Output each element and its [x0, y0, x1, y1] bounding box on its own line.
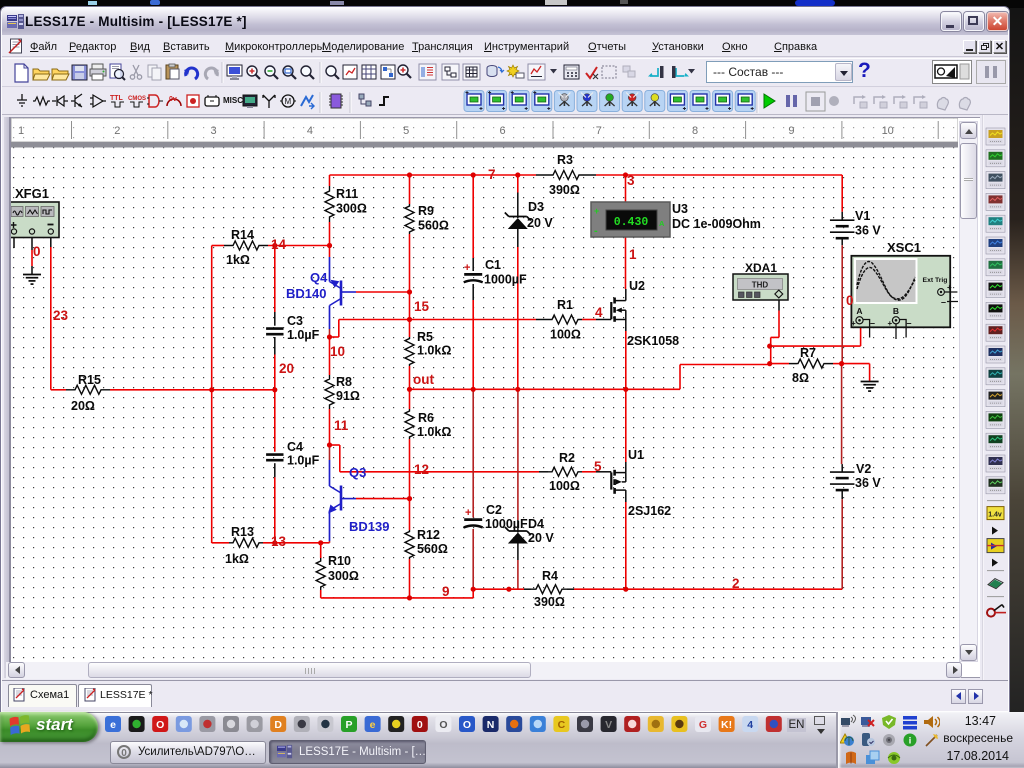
svg-text:11: 11 [334, 418, 349, 433]
svg-text:R14: R14 [231, 228, 254, 242]
svg-text:1000µF: 1000µF [484, 273, 527, 287]
svg-text:23: 23 [53, 308, 69, 323]
svg-text:Q3: Q3 [349, 465, 366, 480]
svg-text:U1: U1 [628, 448, 644, 462]
svg-text:e: e [370, 719, 376, 731]
svg-text:DC 1e-009Ohm: DC 1e-009Ohm [672, 217, 761, 231]
svg-text:TTL: TTL [110, 95, 124, 102]
svg-text:1.0kΩ: 1.0kΩ [417, 344, 451, 358]
svg-text:R7: R7 [800, 346, 816, 360]
svg-text:+: + [851, 319, 856, 328]
svg-text:BD139: BD139 [349, 519, 389, 534]
svg-text:560Ω: 560Ω [418, 219, 449, 233]
svg-text:2: 2 [732, 576, 740, 591]
svg-text:–: – [941, 297, 946, 307]
svg-text:0v: 0v [169, 96, 177, 103]
svg-text:0: 0 [846, 293, 854, 308]
svg-text:390Ω: 390Ω [549, 183, 580, 197]
svg-text:+: + [888, 319, 893, 328]
svg-text:V: V [605, 719, 612, 731]
svg-text:1: 1 [18, 125, 24, 137]
svg-text:20Ω: 20Ω [71, 399, 95, 413]
svg-text:V1: V1 [855, 209, 870, 223]
svg-text:R15: R15 [78, 373, 101, 387]
svg-text:B: B [893, 306, 899, 316]
svg-text:0: 0 [417, 719, 423, 731]
svg-text:+: + [464, 262, 470, 274]
svg-text:4: 4 [747, 719, 753, 731]
svg-text:2SK1058: 2SK1058 [627, 334, 679, 348]
svg-text:O: O [463, 719, 471, 731]
svg-text:4: 4 [307, 125, 313, 137]
svg-text:U3: U3 [672, 202, 688, 216]
svg-text:R13: R13 [231, 525, 254, 539]
svg-text:20 V: 20 V [528, 531, 554, 545]
svg-text:+: + [594, 206, 599, 216]
svg-text:R2: R2 [559, 451, 575, 465]
svg-text:D4: D4 [528, 517, 544, 531]
svg-text:N: N [487, 719, 495, 731]
svg-text:XSC1: XSC1 [887, 240, 921, 255]
svg-text:0: 0 [33, 244, 41, 259]
svg-text:1.0µF: 1.0µF [287, 454, 320, 468]
svg-text:0.430: 0.430 [614, 216, 649, 229]
svg-text:1.0kΩ: 1.0kΩ [417, 425, 451, 439]
svg-text:20: 20 [279, 361, 294, 376]
svg-text:10: 10 [330, 344, 345, 359]
svg-text:R8: R8 [336, 375, 352, 389]
svg-text:–: – [907, 318, 912, 328]
svg-text:Ext Trig: Ext Trig [923, 277, 948, 284]
svg-text:XDA1: XDA1 [745, 261, 777, 275]
svg-text:R6: R6 [418, 411, 434, 425]
svg-text:10: 10 [882, 125, 894, 137]
svg-text:100Ω: 100Ω [549, 479, 580, 493]
svg-text:4: 4 [595, 305, 603, 320]
svg-text:36 V: 36 V [855, 224, 881, 238]
svg-text:-: - [594, 225, 598, 237]
svg-text:A: A [659, 219, 665, 228]
svg-text:CMOS: CMOS [128, 96, 146, 102]
svg-text:1.0µF: 1.0µF [287, 328, 320, 342]
svg-text:300Ω: 300Ω [336, 202, 367, 216]
svg-text:+: + [465, 507, 471, 519]
svg-text:91Ω: 91Ω [336, 389, 360, 403]
svg-text:i: i [909, 736, 912, 746]
svg-text:R11: R11 [336, 187, 358, 201]
svg-text:C: C [558, 719, 566, 731]
svg-text:3: 3 [211, 125, 217, 137]
svg-text:15: 15 [414, 299, 430, 314]
svg-text:R10: R10 [328, 554, 351, 568]
svg-text:+: + [947, 283, 952, 292]
svg-text:out: out [413, 372, 434, 387]
svg-text:D: D [274, 719, 282, 731]
svg-text:300Ω: 300Ω [328, 569, 359, 583]
svg-text:13: 13 [271, 534, 287, 549]
svg-text:D3: D3 [528, 200, 544, 214]
svg-text:e: e [110, 719, 116, 731]
svg-text:12: 12 [414, 462, 429, 477]
svg-text:P: P [345, 719, 352, 731]
svg-text:C2: C2 [486, 503, 502, 517]
svg-text:2SJ162: 2SJ162 [628, 504, 671, 518]
svg-text:C4: C4 [287, 440, 303, 454]
svg-text:560Ω: 560Ω [417, 542, 448, 556]
svg-text:100Ω: 100Ω [550, 328, 581, 342]
svg-text:–: – [870, 318, 875, 328]
svg-text:R4: R4 [542, 569, 558, 583]
svg-text:8Ω: 8Ω [792, 371, 809, 385]
svg-text:R3: R3 [557, 153, 573, 167]
svg-text:K!: K! [721, 719, 732, 731]
svg-text:R1: R1 [557, 298, 573, 312]
svg-text:14: 14 [271, 237, 287, 252]
svg-text:V2: V2 [856, 462, 871, 476]
svg-text:5: 5 [403, 125, 409, 137]
svg-text:O: O [156, 719, 164, 731]
svg-text:R9: R9 [418, 204, 434, 218]
svg-text:390Ω: 390Ω [534, 595, 565, 609]
svg-text:5: 5 [594, 459, 602, 474]
svg-text:1: 1 [629, 247, 637, 262]
svg-text:Q4: Q4 [310, 270, 328, 285]
svg-text:36 V: 36 V [855, 476, 881, 490]
svg-text:1kΩ: 1kΩ [225, 552, 249, 566]
svg-text:7: 7 [596, 125, 602, 137]
svg-text:20 V: 20 V [527, 216, 553, 230]
svg-text:C1: C1 [485, 258, 501, 272]
svg-text:R12: R12 [417, 528, 440, 542]
svg-text:G: G [699, 719, 707, 731]
svg-text:1000µF: 1000µF [485, 517, 528, 531]
svg-text:A: A [856, 306, 862, 316]
svg-text:O: O [439, 719, 447, 731]
svg-text:C3: C3 [287, 314, 303, 328]
svg-text:XFG1: XFG1 [15, 186, 49, 201]
svg-text:6: 6 [499, 125, 505, 137]
svg-text:2: 2 [114, 125, 120, 137]
svg-text:1kΩ: 1kΩ [226, 253, 250, 267]
svg-text:9: 9 [442, 584, 450, 599]
svg-text:MISC: MISC [223, 96, 243, 105]
svg-text:R5: R5 [417, 330, 433, 344]
svg-text:BD140: BD140 [286, 286, 326, 301]
svg-text:1.4v: 1.4v [988, 512, 1002, 519]
svg-text:M: M [285, 97, 292, 106]
svg-text:U2: U2 [629, 279, 645, 293]
svg-text:7: 7 [488, 167, 496, 182]
svg-text:THD: THD [752, 281, 769, 290]
svg-text:9: 9 [788, 125, 794, 137]
svg-text:8: 8 [692, 125, 698, 137]
svg-text:3: 3 [627, 173, 635, 188]
